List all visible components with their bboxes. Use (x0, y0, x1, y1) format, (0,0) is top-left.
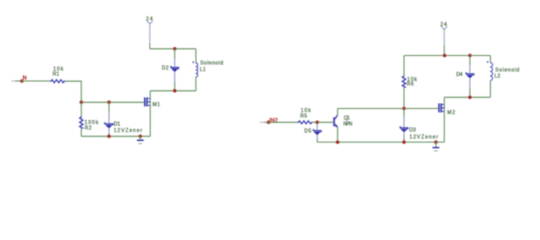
svg-text:L1: L1 (200, 67, 206, 73)
node junction D4 top (468, 54, 472, 58)
ground GND right (433, 142, 440, 151)
node junction D1 bottom (107, 135, 111, 139)
svg-text:Solenoid: Solenoid (200, 60, 223, 66)
svg-text:M1: M1 (153, 102, 161, 108)
wire D5 top lead (316, 122, 318, 125)
wire gate row (81, 101, 144, 103)
wire D4 bottom lead (469, 78, 471, 88)
L2 phase dot (487, 61, 489, 63)
wire M2 drain-source vertical (443, 97, 445, 142)
wire top rail right (404, 55, 490, 57)
wire D1 top lead (108, 102, 110, 112)
node junction D3 bottom (402, 140, 406, 144)
wire R6 top lead (403, 56, 405, 76)
wire R2 top lead (80, 102, 82, 116)
wire R6 bottom lead (403, 88, 405, 109)
diode D1 12V zener (105, 122, 113, 128)
svg-text:D3: D3 (409, 128, 416, 134)
node junction D2 bottom (173, 89, 177, 93)
node junction Q1 emitter (336, 140, 340, 144)
node junction ground right (434, 140, 438, 144)
node junction D1 top (107, 101, 111, 105)
pin IN stub green (15, 80, 22, 82)
svg-text:R6: R6 (407, 82, 414, 88)
svg-text:L2: L2 (495, 73, 501, 79)
pin IN stub pale (12, 80, 16, 82)
svg-text:12VZener: 12VZener (410, 134, 439, 140)
diode D2 (171, 66, 179, 72)
wire M1 drain-source vertical (149, 91, 151, 137)
node junction R2 top (80, 101, 84, 105)
wire bottom of flyback pair (150, 90, 196, 92)
svg-text:M2: M2 (447, 110, 455, 116)
node junction R6 bottom gate (402, 107, 406, 111)
supply symbol chevron right (441, 26, 447, 29)
wire supply to rail right (443, 30, 445, 46)
svg-text:R5: R5 (300, 113, 307, 119)
inductor L1 coil (196, 63, 198, 77)
pin IN2 stub green (264, 121, 268, 123)
wire D2 bottom lead (174, 72, 176, 81)
wire D1 bottom lead (108, 129, 110, 134)
wire D4 top lead (469, 56, 471, 65)
wire IN2 to R5 (269, 121, 298, 123)
svg-text:12VZener: 12VZener (114, 128, 143, 134)
svg-text:D4: D4 (456, 72, 462, 78)
svg-text:R1: R1 (53, 72, 60, 78)
transistor M1 NMOS (144, 97, 150, 106)
node junction D5 top (315, 121, 319, 125)
svg-text:NPN: NPN (343, 122, 352, 128)
wire Q1 emitter down (337, 127, 339, 142)
wire IN to R1 (22, 80, 50, 82)
wire D5 bottom lead (316, 135, 318, 139)
wire L1 top lead (195, 49, 197, 63)
wire R1 to corner (65, 81, 81, 102)
node junction ground (139, 135, 143, 139)
wire D2 top lead (174, 49, 176, 59)
svg-text:D5: D5 (304, 129, 311, 135)
pin IN2 stub pale (260, 121, 265, 123)
inductor L2 coil (490, 63, 492, 81)
resistor R2 (80, 116, 83, 128)
svg-text:D1: D1 (114, 121, 121, 127)
node junction top rail (173, 47, 177, 51)
node junction D4 bottom (468, 96, 472, 100)
wire D3 top lead (403, 109, 405, 117)
node IN2 pin dot (267, 121, 271, 125)
svg-text:R2: R2 (85, 126, 92, 132)
svg-text:D2: D2 (162, 65, 169, 71)
wire bottom rail right (317, 141, 444, 143)
wire top rail left (150, 48, 196, 50)
resistor R5 (297, 121, 312, 124)
wire bottom of flyback pair right (444, 96, 490, 98)
L1 phase dot (192, 61, 194, 63)
wire supply to rail (149, 24, 151, 44)
svg-text:IN2: IN2 (269, 118, 278, 124)
transistor Q1 NPN (333, 115, 338, 127)
node junction supply rail (443, 54, 447, 58)
wire R2 bottom lead (80, 128, 82, 136)
resistor R6 (402, 75, 405, 87)
wire gate row right (338, 108, 439, 110)
wire L1 bottom lead (195, 77, 197, 91)
diode D3 12V zener (400, 126, 408, 132)
node IN pin dot (20, 79, 24, 83)
resistor R1 (50, 80, 65, 83)
wire D3 bottom lead (403, 132, 405, 137)
supply symbol chevron (147, 21, 153, 24)
diode D5 (313, 129, 321, 135)
transistor M2 NMOS (438, 103, 444, 112)
svg-text:Q1: Q1 (344, 115, 350, 121)
diode D4 (466, 72, 474, 78)
wire R5 to junction (313, 121, 334, 123)
ground GND left (137, 136, 144, 143)
wire Q1 collector (337, 109, 339, 116)
wire L2 bottom lead (489, 81, 491, 98)
wire bottom rail left circuit (81, 135, 150, 137)
wire L2 top lead (489, 56, 491, 63)
